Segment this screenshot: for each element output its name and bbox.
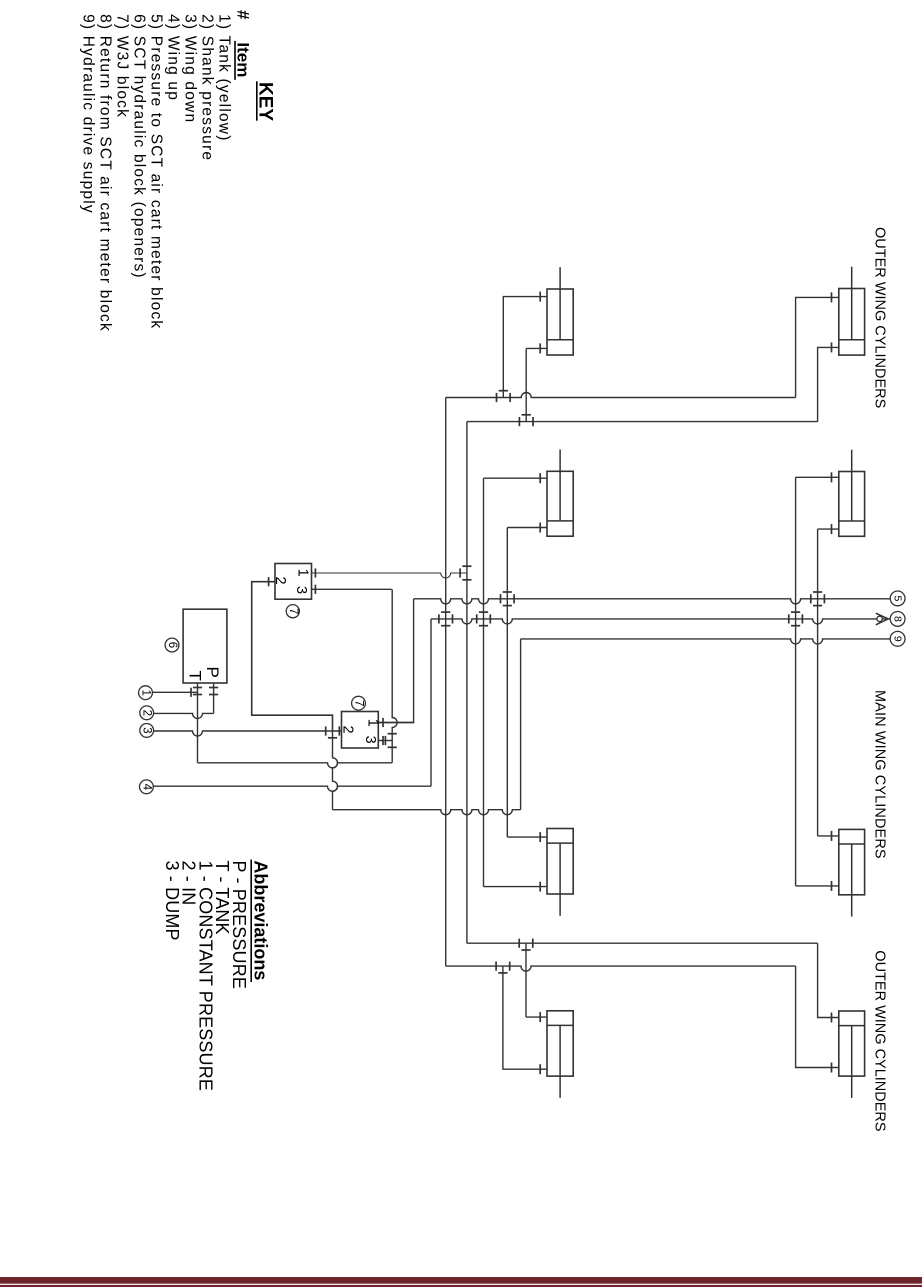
wire circle1 to T stub xyxy=(152,691,197,693)
cylinder left outer wing bottom (2) rod xyxy=(559,450,561,521)
cylinder left outer wing bottom (2) body xyxy=(547,471,573,536)
svg-text:#: # xyxy=(234,10,253,20)
svg-text:7) W3J block: 7) W3J block xyxy=(114,14,131,118)
wire bus A left corner down to block 7b port 1 xyxy=(378,599,413,723)
wire cyl1 port2 drop (hops bus1) xyxy=(525,348,527,421)
port ticks block6 T and P stubs (coupler pairs) xyxy=(193,687,202,689)
svg-text:8) Return from SCT air cart me: 8) Return from SCT air cart meter block xyxy=(97,14,114,332)
cylinder main wing left (5) rod xyxy=(559,843,561,916)
svg-text:7: 7 xyxy=(287,608,299,614)
port tick block7b port3 xyxy=(382,736,384,745)
cylinder main wing right lower (8) body xyxy=(839,1011,865,1076)
cylinder left outer wing top (1) piston xyxy=(547,339,573,341)
wire block6 T stub down to tank return xyxy=(197,683,199,763)
svg-text:3 - DUMP: 3 - DUMP xyxy=(162,861,182,941)
wire cyl2 port2 / cyl5 port1 vertical (joins bus A) xyxy=(506,528,508,838)
wire circle 4 lead (y=786.2) xyxy=(153,786,431,791)
wire block7a port3 to tank return corner xyxy=(312,588,392,590)
svg-text:4: 4 xyxy=(140,784,152,791)
port tick block7b port1 xyxy=(382,718,384,727)
wire circle3-net down leg x=333.8 (hops tank return and circle4 wire) xyxy=(333,731,338,810)
wire circle3 to block7b port2 (y=731) xyxy=(154,731,342,736)
svg-text:9: 9 xyxy=(892,636,904,642)
terminal circle 2 (shank pressure) xyxy=(140,706,154,720)
wire bus E corner down to cyl8 port1 xyxy=(818,943,839,1017)
svg-text:6) SCT hydraulic block (opener: 6) SCT hydraulic block (openers) xyxy=(131,14,148,279)
wire cyl6 port1 drop from bus E (hops bus F) xyxy=(525,943,527,1017)
wire cyl2 port1 / cyl5 port2 vertical (joins bus B) xyxy=(483,478,485,886)
svg-text:2: 2 xyxy=(272,577,288,585)
junction bus B / cyl2.p1 vertical xyxy=(476,614,478,623)
port tick block7a port3 xyxy=(314,585,316,594)
bottom maroon divider bar thick xyxy=(0,1277,922,1284)
flow arrow small circle xyxy=(877,616,882,621)
W3J block 7a body xyxy=(275,564,312,600)
cylinder right outer wing bottom (4) body xyxy=(839,472,865,537)
cylinder main wing left (5) body xyxy=(547,829,573,895)
svg-text:6: 6 xyxy=(166,642,178,648)
cylinder main wing right lower (8) rod xyxy=(851,1026,853,1098)
wire block6 P stub xyxy=(213,683,215,713)
svg-text:OUTER WING CYLINDERS: OUTER WING CYLINDERS xyxy=(872,950,888,1131)
junction bus E / cyl6.p1 drop xyxy=(518,939,520,948)
bottom maroon divider bar thin xyxy=(0,1285,922,1287)
wire cyl3 port1 drop xyxy=(796,297,839,397)
wire cyl4 port1 / cyl7 port2 vertical (joins bus B) xyxy=(795,477,797,886)
svg-text:1: 1 xyxy=(365,719,381,727)
cylinder right outer wing top (3) rod xyxy=(851,267,853,340)
cylinder right outer wing top (3) body xyxy=(839,289,865,356)
junction tank return / block7b.p3 wire xyxy=(384,736,386,745)
wire block7a port1 to trunk L2 (thin, y=573) xyxy=(312,573,467,578)
wire cyl1 port1 drop xyxy=(503,297,547,398)
svg-text:2: 2 xyxy=(339,726,355,734)
wire bus2 top (cyl1.p2 / cyl3.p2 net, y=421.6) xyxy=(467,421,818,423)
terminal circle 5 (pressure to SCT meter block) xyxy=(890,591,905,606)
svg-text:3: 3 xyxy=(293,586,309,594)
Item underline xyxy=(234,41,236,80)
svg-text:MAIN WING CYLINDERS: MAIN WING CYLINDERS xyxy=(872,690,888,859)
svg-text:2: 2 xyxy=(141,710,153,716)
junction circle3 wire / block7a.p2 leg xyxy=(325,726,327,735)
KEY underline xyxy=(256,81,258,120)
svg-text:KEY: KEY xyxy=(255,82,276,121)
wire block7b port1 short lead xyxy=(378,722,413,724)
svg-text:1) Tank (yellow): 1) Tank (yellow) xyxy=(216,14,233,141)
port tick block7a port2 xyxy=(268,577,270,586)
cylinder left outer wing top (1) rod xyxy=(559,267,561,340)
Abbreviations underline xyxy=(250,860,252,983)
cylinder main wing left (5) port ticks xyxy=(539,832,541,842)
svg-text:7: 7 xyxy=(353,700,365,706)
wire block7b port3 lead to tank return vertical xyxy=(378,740,392,742)
wire tank return horizontal y=762.8 xyxy=(198,763,393,768)
svg-text:3: 3 xyxy=(362,736,378,744)
wire bus F (L1 to cyl6.2/cyl8.2, y=966.1) xyxy=(446,966,796,971)
svg-text:1: 1 xyxy=(295,569,311,577)
wire circle2 to P stub (hops T line) xyxy=(154,713,214,718)
junction bus B / cyl4.p1 vertical xyxy=(788,614,790,623)
cylinder main wing right lower (8) port ticks xyxy=(831,1013,833,1023)
cylinder main wing left lower (6) body xyxy=(547,1011,573,1076)
svg-text:Item: Item xyxy=(234,42,253,77)
cylinder main wing right (7) rod xyxy=(851,844,853,917)
port tick circle1 wire xyxy=(190,688,192,697)
svg-text:8: 8 xyxy=(892,616,904,622)
wire tank return vertical x=392.9 (hops block7b.1 wire) xyxy=(392,589,397,763)
block7a item circle 7 xyxy=(286,605,299,618)
junction bus2 / cyl1.p2 xyxy=(518,417,520,426)
wire cyl6 port2 drop from bus F xyxy=(503,966,547,1069)
wire bus D (to circle 9, y=638.9) xyxy=(521,639,891,644)
junction bus A / cyl4.p2 vertical xyxy=(810,594,812,603)
cylinder right outer wing bottom (4) piston xyxy=(839,520,865,522)
svg-text:5: 5 xyxy=(892,595,904,601)
wire block7a port2 route (left, down, right, down to circle3 wire) xyxy=(252,582,333,731)
cylinder right outer wing top (3) port ticks xyxy=(831,292,833,302)
svg-text:T: T xyxy=(186,671,205,681)
cylinder left outer wing top (1) body xyxy=(547,289,573,355)
terminal circle 1 (tank) xyxy=(139,686,153,700)
svg-text:3) Wing down: 3) Wing down xyxy=(182,14,199,123)
wire bus C to bus D riser (x=520.6) xyxy=(520,639,522,810)
svg-text:3: 3 xyxy=(141,727,153,733)
cylinder main wing right (7) port ticks xyxy=(831,831,833,841)
svg-text:4) Wing up: 4) Wing up xyxy=(165,14,182,101)
svg-text:Abbreviations: Abbreviations xyxy=(250,860,270,980)
cylinder right outer wing top (3) piston xyxy=(839,339,865,341)
cylinder main wing right lower (8) piston xyxy=(839,1025,865,1027)
wire bus E (L2 to cyl6.1/cyl8.1, y=943.2) xyxy=(467,942,818,944)
junction bus B / trunk L1 xyxy=(438,614,440,623)
wire trunk L1 (x=445.7) xyxy=(445,398,447,967)
terminal circle 4 (wing up) xyxy=(140,780,154,794)
cylinder main wing left lower (6) rod xyxy=(559,1025,561,1098)
cylinder right outer wing bottom (4) port ticks xyxy=(831,472,833,482)
flow arrow at terminal 8 (open arrowhead pointing right) xyxy=(876,613,889,625)
junction bus F / cyl6.p2 drop xyxy=(495,962,497,971)
wire cyl3 port2 drop xyxy=(818,347,839,421)
svg-text:P: P xyxy=(203,667,222,678)
svg-text:9) Hydraulic drive supply: 9) Hydraulic drive supply xyxy=(80,14,97,214)
wire cyl4 port2 / cyl7 port1 vertical (joins bus A) xyxy=(817,529,819,836)
cylinder left outer wing top (1) port ticks xyxy=(539,292,541,302)
wire bus1 top (cyl1.p1 / cyl3.p1 net, y=397.5) xyxy=(446,393,796,398)
svg-text:2) Shank pressure: 2) Shank pressure xyxy=(199,14,216,161)
terminal circle 8 (return from SCT meter block) xyxy=(890,612,905,627)
cylinder left outer wing bottom (2) port ticks xyxy=(539,473,541,483)
SCT hydraulic block (item 6) body xyxy=(183,609,227,683)
cylinder main wing right (7) body xyxy=(839,829,865,894)
wire bus B (circle4 - trunks - cyl4.1, y=618.9) xyxy=(431,619,890,624)
terminal circle 9 (hydraulic drive supply) xyxy=(890,631,905,646)
wire bus F corner down to cyl8 port2 xyxy=(796,966,839,1067)
wire bus A (block7b.1 - cyl2.2 - cyl4.2 - circle5, y=598.8) xyxy=(414,599,891,604)
cylinder right outer wing bottom (4) rod xyxy=(851,450,853,521)
cylinder left outer wing bottom (2) piston xyxy=(547,520,573,522)
cylinder main wing left (5) piston xyxy=(547,842,573,844)
block6 item circle 6 xyxy=(165,638,179,652)
wire bus C (circle3 net lower run, y=809.7) xyxy=(333,810,521,815)
junction bus1 / cyl1.p1 xyxy=(496,393,498,402)
W3J block 7b body xyxy=(342,712,379,749)
svg-text:OUTER WING CYLINDERS: OUTER WING CYLINDERS xyxy=(872,227,888,408)
block7b item circle 7 xyxy=(352,696,366,710)
wire trunk L2 (x=466.9) xyxy=(466,422,468,944)
terminal circle 3 (wing down) xyxy=(140,724,154,738)
svg-text:5) Pressure to SCT air cart me: 5) Pressure to SCT air cart meter block xyxy=(148,14,165,329)
wire bus B left corner down to circle 4 wire xyxy=(430,619,432,786)
junction bus A / cyl2.p2 vertical xyxy=(500,594,502,603)
cylinder main wing left lower (6) piston xyxy=(547,1024,573,1026)
port tick block7a port1 xyxy=(314,568,316,577)
svg-text:1: 1 xyxy=(140,689,152,695)
junction trunk L2 / block7a.p1 wire xyxy=(459,568,461,577)
cylinder main wing right (7) piston xyxy=(839,843,865,845)
cylinder main wing left lower (6) port ticks xyxy=(539,1012,541,1022)
